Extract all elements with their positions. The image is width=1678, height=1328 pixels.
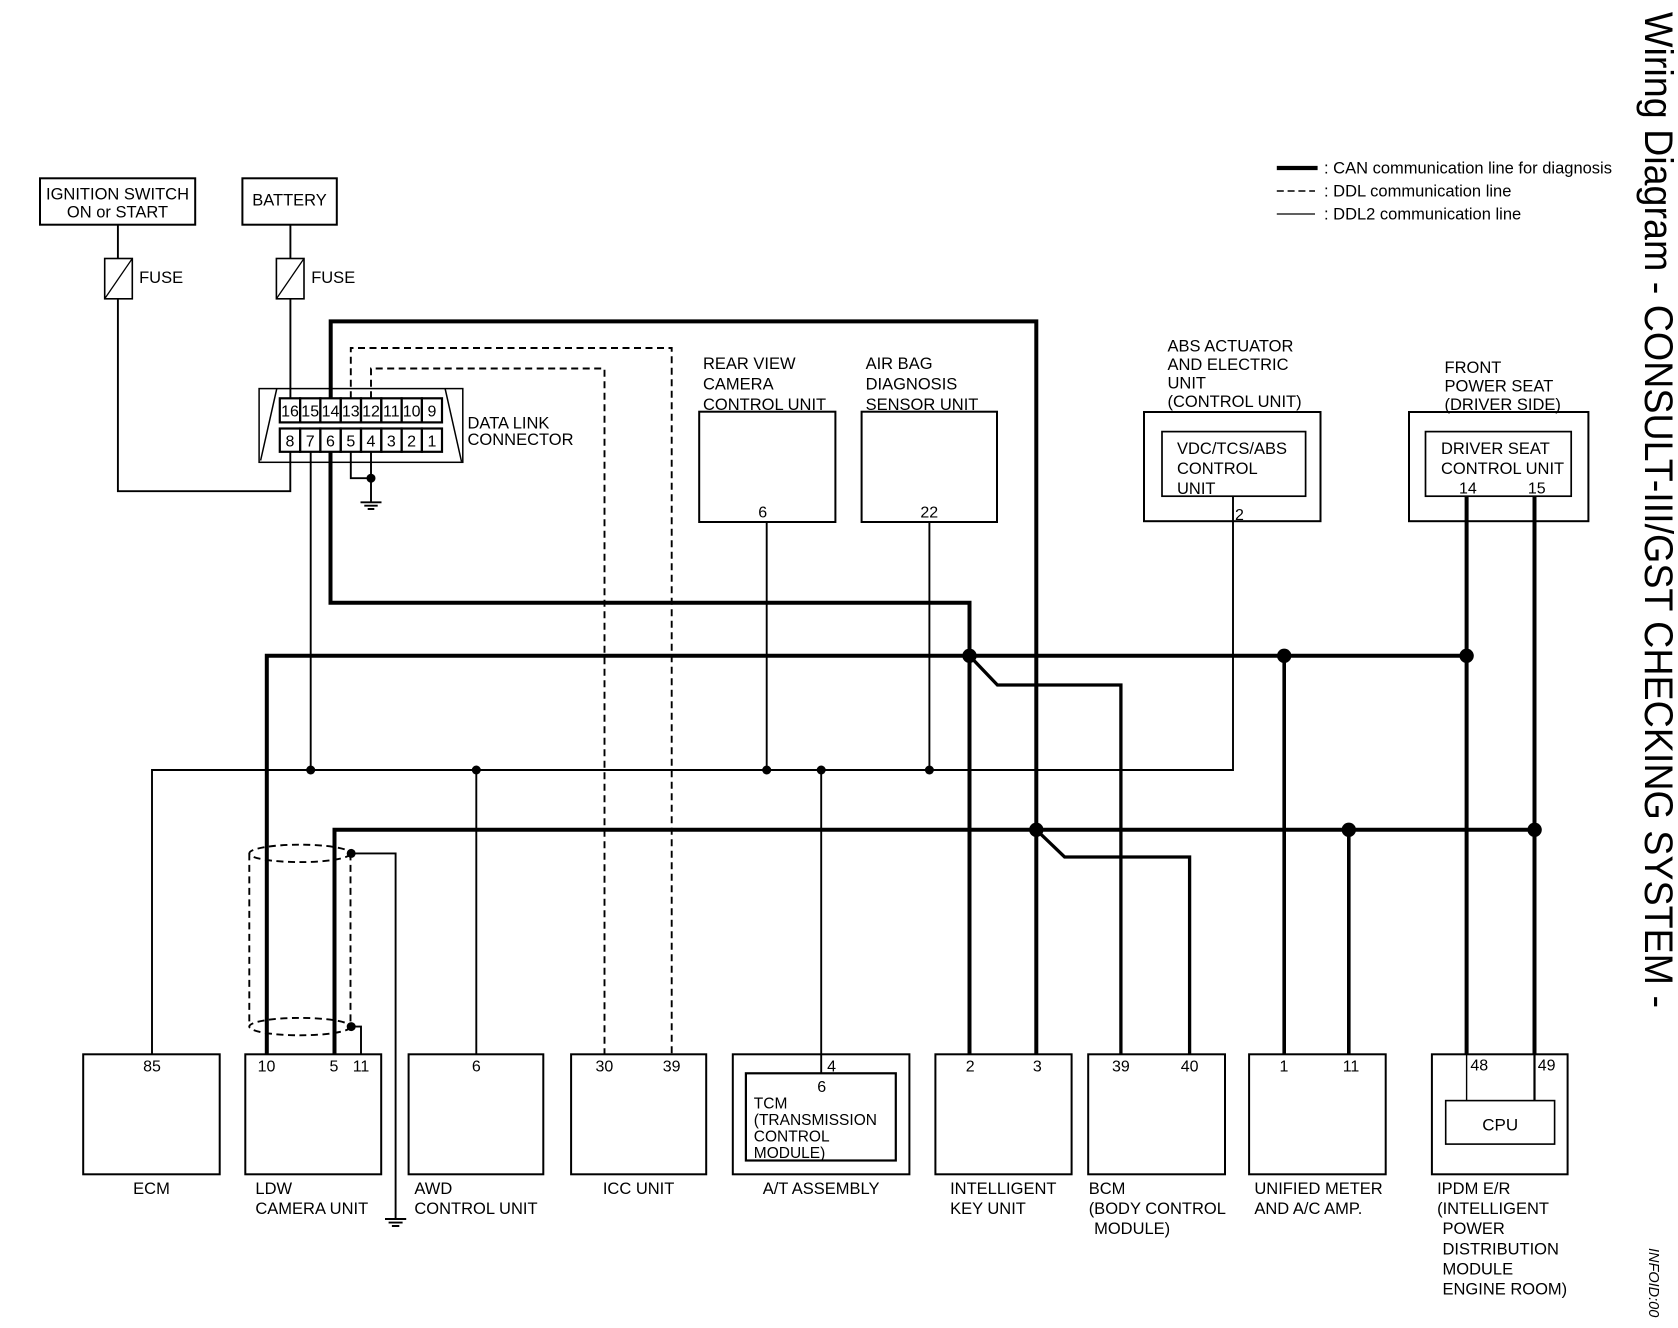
svg-text:6: 6 — [326, 434, 335, 451]
svg-text:3: 3 — [1033, 1059, 1042, 1076]
svg-text:Wiring Diagram - CONSULT-III/G: Wiring Diagram - CONSULT-III/GST CHECKIN… — [1636, 12, 1678, 1008]
svg-text:13: 13 — [342, 404, 360, 421]
svg-text:6: 6 — [817, 1079, 826, 1096]
svg-text:(CONTROL UNIT): (CONTROL UNIT) — [1168, 393, 1302, 411]
svg-text:FRONT: FRONT — [1445, 359, 1502, 377]
svg-text:30: 30 — [596, 1059, 614, 1076]
svg-text:14: 14 — [1459, 481, 1477, 498]
svg-text:IPDM E/R: IPDM E/R — [1437, 1180, 1510, 1198]
svg-text:15: 15 — [301, 404, 319, 421]
svg-text:2: 2 — [407, 434, 416, 451]
svg-text:AIR BAG: AIR BAG — [866, 355, 933, 373]
svg-text:15: 15 — [1528, 481, 1546, 498]
svg-text:DRIVER SEAT: DRIVER SEAT — [1441, 440, 1550, 458]
svg-text:UNIT: UNIT — [1177, 480, 1216, 498]
svg-text:UNIFIED METER: UNIFIED METER — [1254, 1180, 1382, 1198]
svg-text:POWER SEAT: POWER SEAT — [1445, 378, 1554, 396]
svg-text:ECM: ECM — [133, 1180, 170, 1198]
svg-text:2: 2 — [1235, 507, 1244, 524]
svg-text:CONNECTOR: CONNECTOR — [468, 431, 574, 449]
svg-text:11: 11 — [353, 1059, 370, 1076]
svg-text:FUSE: FUSE — [311, 269, 355, 287]
svg-text:5: 5 — [346, 434, 355, 451]
svg-text:CONTROL UNIT: CONTROL UNIT — [414, 1200, 537, 1218]
svg-text:: CAN communication line for d: : CAN communication line for diagnosis — [1324, 159, 1612, 177]
svg-text:CONTROL UNIT: CONTROL UNIT — [703, 396, 826, 414]
svg-text:INTELLIGENT: INTELLIGENT — [950, 1180, 1056, 1198]
svg-text:10: 10 — [258, 1059, 276, 1076]
svg-text:ABS ACTUATOR: ABS ACTUATOR — [1168, 338, 1294, 356]
svg-text:SENSOR UNIT: SENSOR UNIT — [866, 396, 979, 414]
svg-text:: DDL2 communication line: : DDL2 communication line — [1324, 205, 1521, 223]
svg-text:MODULE: MODULE — [1443, 1260, 1514, 1278]
svg-text:MODULE): MODULE) — [754, 1145, 825, 1162]
svg-text:CONTROL: CONTROL — [754, 1129, 830, 1146]
svg-text:11: 11 — [1343, 1059, 1360, 1076]
svg-text:7: 7 — [306, 434, 315, 451]
svg-text:3: 3 — [387, 434, 396, 451]
svg-text:4: 4 — [827, 1059, 836, 1076]
svg-text:ON or START: ON or START — [67, 204, 168, 222]
svg-text:: DDL communication line: : DDL communication line — [1324, 182, 1511, 200]
svg-text:(BODY CONTROL: (BODY CONTROL — [1089, 1200, 1226, 1218]
svg-text:BCM: BCM — [1089, 1180, 1126, 1198]
svg-text:11: 11 — [383, 404, 400, 421]
svg-text:DIAGNOSIS: DIAGNOSIS — [866, 376, 958, 394]
svg-text:CPU: CPU — [1482, 1116, 1518, 1135]
svg-text:4: 4 — [367, 434, 376, 451]
svg-text:AND ELECTRIC: AND ELECTRIC — [1168, 356, 1289, 374]
svg-text:14: 14 — [322, 404, 340, 421]
svg-text:85: 85 — [143, 1059, 161, 1076]
svg-text:INFOID:00: INFOID:00 — [1645, 1248, 1661, 1317]
svg-text:A/T ASSEMBLY: A/T ASSEMBLY — [763, 1180, 880, 1198]
svg-text:6: 6 — [472, 1059, 481, 1076]
svg-text:39: 39 — [1112, 1059, 1130, 1076]
svg-text:1: 1 — [427, 434, 436, 451]
svg-text:22: 22 — [920, 505, 938, 522]
svg-text:2: 2 — [966, 1059, 975, 1076]
svg-text:KEY UNIT: KEY UNIT — [950, 1200, 1026, 1218]
svg-text:CAMERA UNIT: CAMERA UNIT — [255, 1200, 368, 1218]
svg-text:TCM: TCM — [754, 1096, 788, 1113]
svg-text:49: 49 — [1538, 1058, 1556, 1075]
svg-text:(DRIVER SIDE): (DRIVER SIDE) — [1445, 396, 1561, 414]
svg-text:AND A/C AMP.: AND A/C AMP. — [1254, 1200, 1362, 1218]
svg-text:16: 16 — [281, 404, 299, 421]
svg-text:48: 48 — [1470, 1058, 1488, 1075]
svg-text:9: 9 — [427, 404, 436, 421]
svg-text:AWD: AWD — [414, 1180, 452, 1198]
svg-text:BATTERY: BATTERY — [252, 192, 327, 210]
svg-text:CAMERA: CAMERA — [703, 376, 774, 394]
svg-text:CONTROL UNIT: CONTROL UNIT — [1441, 460, 1564, 478]
svg-text:IGNITION SWITCH: IGNITION SWITCH — [46, 186, 189, 204]
svg-text:ICC UNIT: ICC UNIT — [603, 1180, 675, 1198]
svg-text:VDC/TCS/ABS: VDC/TCS/ABS — [1177, 440, 1287, 458]
svg-text:FUSE: FUSE — [139, 269, 183, 287]
svg-text:6: 6 — [758, 505, 767, 522]
svg-text:(TRANSMISSION: (TRANSMISSION — [754, 1112, 877, 1129]
svg-text:MODULE): MODULE) — [1094, 1220, 1170, 1238]
svg-text:10: 10 — [403, 404, 421, 421]
svg-text:UNIT: UNIT — [1168, 375, 1207, 393]
svg-text:40: 40 — [1181, 1059, 1199, 1076]
svg-text:1: 1 — [1279, 1059, 1288, 1076]
svg-text:CONTROL: CONTROL — [1177, 460, 1258, 478]
svg-text:(INTELLIGENT: (INTELLIGENT — [1437, 1200, 1549, 1218]
svg-text:ENGINE ROOM): ENGINE ROOM) — [1443, 1281, 1568, 1299]
svg-text:REAR VIEW: REAR VIEW — [703, 355, 796, 373]
svg-text:12: 12 — [362, 404, 380, 421]
svg-text:POWER: POWER — [1443, 1220, 1505, 1238]
svg-text:DATA LINK: DATA LINK — [468, 415, 550, 433]
svg-text:LDW: LDW — [255, 1180, 292, 1198]
svg-text:5: 5 — [329, 1059, 338, 1076]
svg-text:39: 39 — [663, 1059, 681, 1076]
svg-text:8: 8 — [286, 434, 295, 451]
svg-text:DISTRIBUTION: DISTRIBUTION — [1443, 1240, 1559, 1258]
